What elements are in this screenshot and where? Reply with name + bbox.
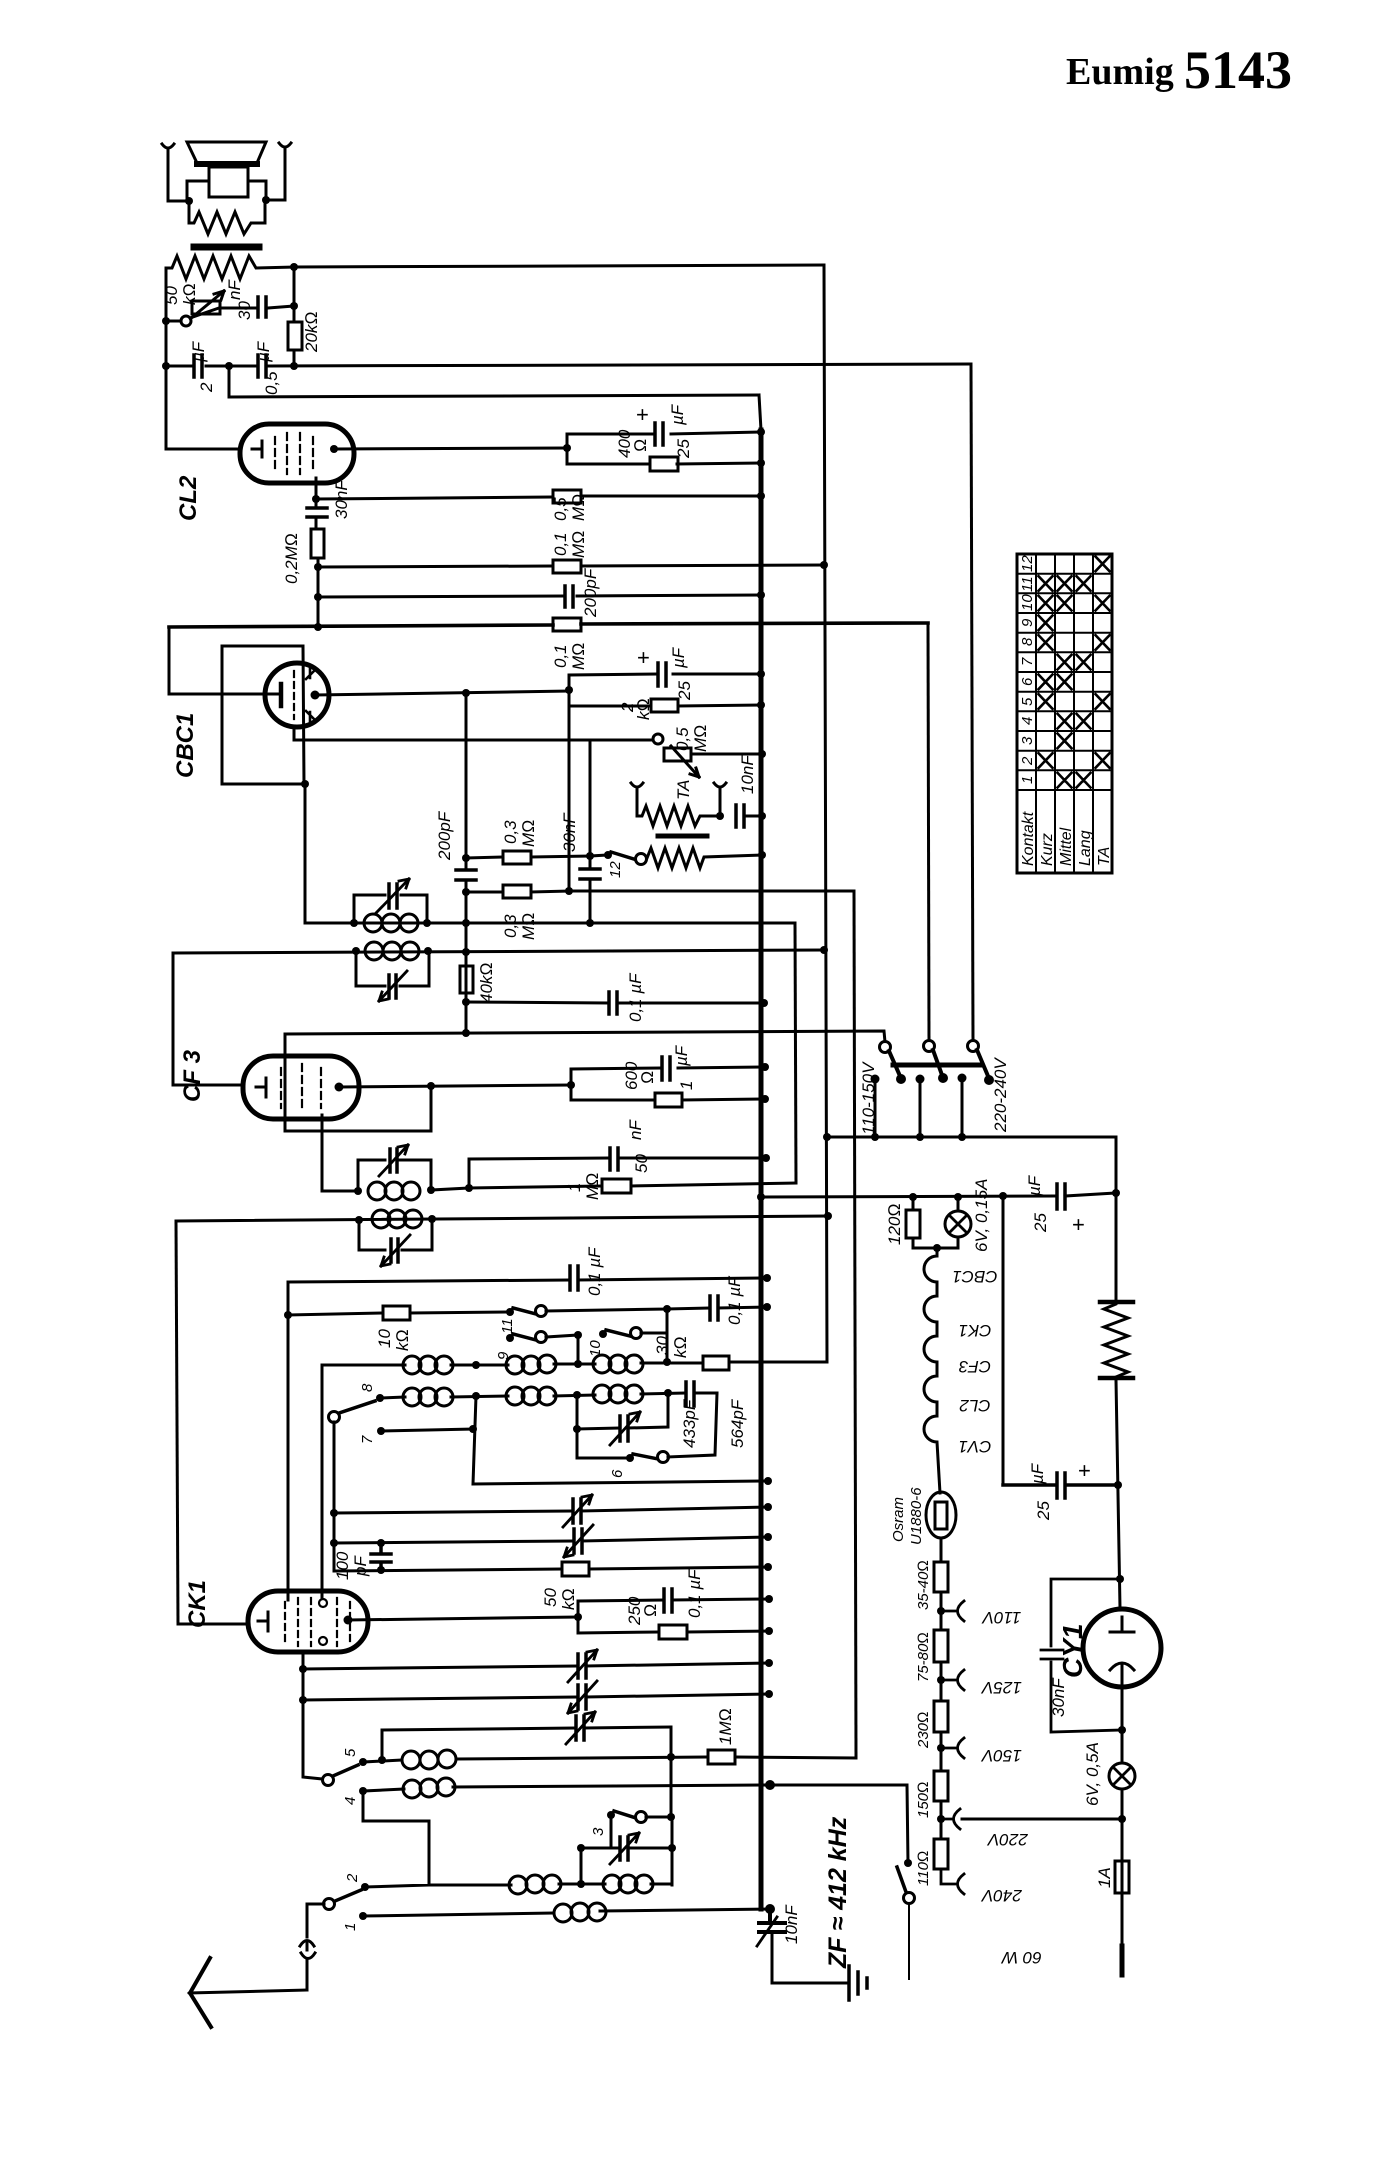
node speaker left — [185, 197, 193, 205]
svg-text:CL2: CL2 — [959, 1396, 991, 1415]
node bus 855 — [758, 851, 766, 859]
svg-text:ZF ≈ 412 kHz: ZF ≈ 412 kHz — [824, 1816, 852, 1969]
node 958-1197 — [954, 1193, 962, 1201]
node 578-1364 — [574, 1360, 582, 1368]
wire row 1697 — [303, 1694, 769, 1700]
node IF1 right — [423, 919, 431, 927]
label 25uF CBC1 — [669, 646, 694, 701]
label TA — [674, 780, 693, 800]
node 469-1188 — [465, 1184, 473, 1192]
svg-text:50: 50 — [632, 1154, 651, 1173]
wire row 1666 — [303, 1663, 769, 1669]
svg-text:11: 11 — [499, 1318, 516, 1334]
svg-text:MΩ: MΩ — [569, 643, 588, 670]
node cage bottom — [301, 780, 309, 788]
svg-text:5: 5 — [342, 1748, 359, 1757]
svg-text:1: 1 — [342, 1923, 359, 1931]
node 334-1543 — [330, 1539, 338, 1547]
svg-text:12: 12 — [1019, 555, 1036, 572]
svg-text:MΩ: MΩ — [519, 913, 538, 940]
node CL2 cathode — [312, 495, 320, 503]
label 220V — [986, 1830, 1028, 1849]
wire row 1728 — [382, 1727, 671, 1730]
node 382-1760 — [378, 1756, 386, 1764]
coil band 5 — [402, 1751, 420, 1769]
wire switch9 to coil row — [546, 1335, 578, 1364]
node tap 150V — [937, 1744, 945, 1752]
wire CL2 cathode pin — [315, 483, 318, 499]
wire CK1 cathode down — [303, 1652, 322, 1779]
svg-text:Ω: Ω — [631, 439, 650, 452]
svg-text:0,3: 0,3 — [501, 914, 520, 938]
node CBC1 anode — [311, 691, 320, 700]
label 400 Ohm — [615, 429, 650, 458]
resistor 40kOhm — [460, 966, 473, 993]
wire 0.2M to rows — [317, 558, 320, 627]
selector stub 1 — [874, 1079, 877, 1137]
node 668-1393 — [664, 1389, 672, 1397]
potentiometer 50k slider — [192, 301, 220, 314]
node bus 432 — [757, 428, 765, 436]
coil osc B2 — [506, 1387, 524, 1405]
resistor 600 Ohm — [655, 1093, 682, 1107]
selector lever 1 — [889, 1051, 900, 1076]
antenna arrow — [190, 1958, 211, 2027]
selector bar — [893, 1063, 981, 1068]
variable capacitor padder — [620, 1837, 628, 1860]
node IF4 right — [428, 1215, 436, 1223]
terminal 125V — [941, 1670, 964, 1690]
terminal selector 1 — [880, 1042, 891, 1053]
capacitor 0.1uF row1308 — [710, 1296, 718, 1320]
label 1M IF — [565, 1173, 602, 1200]
label 30nF CY1 — [1049, 1677, 1068, 1717]
node 1118-1485 — [1114, 1481, 1122, 1489]
wire left rail CK1 — [176, 1221, 178, 1624]
node 913-1197 — [909, 1193, 917, 1201]
label Osram — [890, 1487, 925, 1545]
selector lever 2 — [933, 1050, 942, 1075]
svg-text:Eumig: Eumig — [1066, 51, 1174, 93]
contact table labels — [1020, 811, 1113, 866]
wire row 923 — [305, 784, 795, 923]
wire vertical 928 — [928, 623, 929, 1040]
title Eumig 5143 — [1066, 40, 1292, 100]
wire row 1511 — [334, 1507, 768, 1513]
svg-text:CK1: CK1 — [184, 1580, 211, 1628]
wire vertical 672 low — [671, 1817, 674, 1885]
svg-text:12: 12 — [607, 861, 624, 878]
node 1003-1197 — [999, 1192, 1007, 1200]
node tap 220V — [937, 1815, 945, 1823]
svg-text:0,1: 0,1 — [551, 532, 570, 556]
resistor 0.1M row567 — [553, 560, 581, 573]
wire vertical 1003 — [1002, 1196, 1005, 1485]
svg-text:10: 10 — [375, 1329, 394, 1348]
label 10kOhm — [375, 1329, 412, 1351]
label 0.1uF row1308 — [725, 1275, 744, 1325]
svg-text:5: 5 — [1019, 697, 1036, 706]
wire 220V to CY1 line — [962, 1818, 1122, 1821]
coil IF3 — [368, 1182, 386, 1200]
wire 30nF to node — [268, 306, 294, 308]
wire dropper 3 — [940, 1732, 943, 1771]
capacitor 30nF CL2 grid — [307, 508, 327, 517]
wire CF3 rail — [173, 953, 243, 1085]
svg-text:30nF: 30nF — [560, 812, 579, 852]
label CBC1 heater — [952, 1267, 997, 1456]
tube CL2 internals — [252, 441, 262, 457]
label plus CL2 cap — [636, 402, 649, 427]
switch 7 — [377, 1427, 385, 1435]
svg-text:µF: µF — [668, 403, 687, 426]
node 600 block left — [567, 1081, 575, 1089]
wire row 1397 — [380, 1393, 717, 1398]
wire row 1787 — [363, 1785, 907, 1791]
wire switch6 stub — [577, 1429, 630, 1458]
node rail wiper — [162, 317, 170, 325]
node bus 1537 — [764, 1533, 772, 1541]
capacitor 0.1uF row1002 — [609, 992, 617, 1014]
resistor speaker hum-bucking — [189, 200, 265, 234]
variable capacitor gang A — [573, 1499, 581, 1523]
wire vertical 1116 — [1116, 1137, 1120, 1608]
svg-text:150V: 150V — [980, 1746, 1021, 1765]
capacitor 10nF IF out — [759, 1909, 785, 1932]
label 0.1uF CK1 — [685, 1568, 704, 1618]
variable capacitor IF4 — [391, 1239, 398, 1262]
node IF1 left — [350, 919, 358, 927]
label 2 uF — [189, 340, 216, 393]
wire row 951 — [173, 950, 824, 953]
label 250 Ohm — [625, 1596, 660, 1626]
wire chain to dropper — [940, 1538, 943, 1562]
resistor after switch 12 — [647, 848, 762, 868]
node tap 125V — [937, 1676, 945, 1684]
svg-text:TA: TA — [1096, 847, 1113, 866]
wire 50nF branch — [469, 1158, 766, 1188]
node bus 705 — [757, 701, 765, 709]
resistor 120 Ohm — [912, 1197, 915, 1248]
capacitor 25uF CL2 — [655, 423, 663, 445]
node bus 754 — [758, 750, 766, 758]
capacitor 0.1uF row1281 — [570, 1266, 578, 1290]
capacitor 0.5uF — [258, 355, 266, 377]
svg-text:220-240V: 220-240V — [991, 1057, 1010, 1133]
node 334-1513 — [330, 1509, 338, 1517]
label 0.5 M — [673, 725, 710, 752]
node 1122-1819 — [1118, 1815, 1126, 1823]
capacitor 200pF CBC1 — [456, 870, 476, 880]
label 0.1M 0.5M pair — [551, 494, 588, 558]
variable capacitor IF3 — [390, 1149, 397, 1172]
terminal 50k wiper — [181, 316, 191, 326]
resistor 230 — [934, 1701, 948, 1732]
label 0.1uF row1281 — [585, 1246, 604, 1296]
wire switch7 row — [381, 1429, 473, 1431]
svg-text:100: 100 — [333, 1551, 352, 1580]
svg-text:8: 8 — [1019, 637, 1036, 646]
label CF3 — [179, 1049, 206, 1102]
wire mains lead — [1121, 1898, 1124, 1944]
node 824-565 — [820, 561, 828, 569]
svg-text:1MΩ: 1MΩ — [716, 1708, 735, 1745]
svg-text:+: + — [1078, 1458, 1091, 1483]
svg-text:Ω: Ω — [638, 1071, 657, 1084]
wire mains switch feed — [907, 1785, 908, 1863]
terminal selector 3 — [968, 1041, 979, 1052]
node 381-1571 — [377, 1566, 385, 1574]
wire vertical 473 — [473, 1396, 768, 1484]
tube CK1 internals — [258, 1612, 268, 1631]
svg-text:150Ω: 150Ω — [915, 1781, 932, 1818]
wire CBC1 anode row — [315, 691, 569, 695]
node bus 1631 — [765, 1627, 773, 1635]
node rail row365 — [162, 362, 170, 370]
node 828-1216 — [824, 1212, 832, 1220]
tube CY1 — [1083, 1609, 1161, 1687]
label 40kOhm — [477, 963, 496, 1003]
coil band 4 — [403, 1780, 421, 1798]
wire speaker left lead — [168, 153, 189, 201]
label 564pF — [728, 1398, 747, 1448]
resistor 400 Ohm — [650, 457, 678, 471]
variable capacitor gang B — [574, 1529, 582, 1553]
selector lever pads — [896, 1074, 906, 1084]
wire dropper 2 — [940, 1662, 943, 1701]
capacitor 30nF CBC1 — [580, 869, 600, 879]
selector lever 3 — [977, 1050, 988, 1076]
TA coupling bar — [658, 834, 707, 839]
variable capacitor gang D — [578, 1685, 586, 1709]
switch 2 — [361, 1883, 369, 1891]
node 381-1543 — [377, 1539, 385, 1547]
label 75-80 — [915, 1632, 932, 1682]
svg-text:Ω: Ω — [641, 1604, 660, 1617]
wire row 891 to right — [569, 890, 854, 893]
svg-text:+: + — [637, 645, 650, 670]
node bus 1507 — [764, 1503, 772, 1511]
label 35-40 — [915, 1560, 932, 1610]
resistor 75-80 — [934, 1630, 948, 1662]
label CY1 — [1057, 1624, 1088, 1678]
wire 600 block frame — [571, 1067, 765, 1100]
svg-text:6V, 0,15A: 6V, 0,15A — [972, 1179, 991, 1252]
node 667-1309 — [663, 1305, 671, 1313]
svg-text:8: 8 — [359, 1383, 376, 1392]
svg-text:0,1 µF: 0,1 µF — [585, 1246, 604, 1296]
IF transformer 4 box — [359, 1219, 432, 1250]
wire row 1187 — [431, 1183, 796, 1190]
svg-text:µF: µF — [672, 1044, 691, 1067]
resistor power zigzag — [1104, 1300, 1128, 1380]
wire vertical 2k-left down — [568, 690, 571, 891]
wire vertical 382 — [381, 1730, 384, 1760]
label 10nF TA — [738, 754, 757, 794]
variable capacitor gang C — [578, 1654, 586, 1678]
svg-text:10: 10 — [1019, 594, 1036, 611]
node 466-858 — [462, 854, 470, 862]
terminal TA fork 1 — [631, 783, 643, 800]
label ZF 412 kHz — [824, 1816, 852, 1969]
node 577-1429 — [573, 1425, 581, 1433]
wire speaker right lead — [266, 152, 285, 200]
svg-text:9: 9 — [1019, 618, 1036, 627]
wire switch10 to 667 — [641, 1332, 667, 1335]
node row567 left — [314, 563, 322, 571]
node CF3 anode — [335, 1083, 344, 1092]
transformer core bar — [194, 244, 259, 251]
svg-text:3: 3 — [590, 1827, 607, 1836]
node bus 1694 — [765, 1690, 773, 1698]
svg-text:4: 4 — [342, 1797, 359, 1805]
variable capacitor gang E — [576, 1716, 584, 1740]
label 0.5 uF — [254, 340, 281, 395]
wire 433 loop — [577, 1393, 668, 1429]
switch 12 — [590, 855, 608, 856]
svg-text:200pF: 200pF — [435, 810, 454, 861]
svg-text:µF: µF — [1028, 1462, 1047, 1485]
wire 20k to row365 — [293, 350, 296, 366]
svg-text:CBC1: CBC1 — [952, 1267, 997, 1286]
label 30 nF — [225, 279, 254, 320]
label CBC1 — [172, 713, 199, 778]
svg-text:25: 25 — [1034, 1501, 1053, 1521]
node 920-1137 — [916, 1133, 924, 1141]
capacitor 30nF top — [258, 297, 266, 317]
node bus 1909 — [765, 1904, 775, 1914]
node 1116-1193 — [1112, 1189, 1120, 1197]
capacitor 25uF CBC1 — [658, 663, 666, 686]
svg-text:6: 6 — [609, 1469, 626, 1478]
svg-text:10nF: 10nF — [738, 754, 757, 794]
switch 6 — [626, 1454, 634, 1462]
wire 10nF to ground — [772, 1935, 847, 1983]
label 30nF CBC1 — [560, 812, 579, 852]
switch 8 — [329, 1412, 340, 1423]
fuse 1A — [1115, 1861, 1129, 1893]
switch 5 — [323, 1775, 334, 1786]
wire heater row 1197 — [761, 1193, 1116, 1197]
label 0.3M lower — [501, 913, 538, 940]
node 30nF switch12 — [586, 852, 594, 860]
wire row 1219 long — [176, 1216, 828, 1221]
switch 11 — [506, 1308, 514, 1316]
node 476-1366 — [472, 1361, 480, 1369]
wire top long row to x824 — [294, 265, 824, 267]
label 60W — [1000, 1948, 1042, 1967]
wire CK1 anode row — [348, 1617, 578, 1620]
node bus 816 — [758, 812, 766, 820]
svg-text:nF: nF — [225, 279, 244, 300]
label 50nF IF — [626, 1119, 651, 1173]
mains cord end — [1120, 1946, 1125, 1975]
node 2uF-0.5uF junction — [225, 362, 233, 370]
wire CF3 screen loop — [285, 1031, 885, 1131]
potentiometer 0.5M body — [664, 748, 691, 761]
node bus 1599 — [765, 1595, 773, 1603]
node row597 left — [314, 593, 322, 601]
potentiometer 50k arrow — [184, 291, 224, 324]
svg-text:pF: pF — [351, 1555, 370, 1577]
tube CBC1 — [265, 663, 329, 727]
IF transformer 3 box — [358, 1160, 431, 1191]
node 400 block left — [563, 444, 571, 452]
tube CF3 internals — [256, 1078, 266, 1097]
svg-text:30: 30 — [235, 301, 254, 320]
speaker voice coil box — [209, 167, 248, 197]
node CK1 anode — [344, 1616, 353, 1625]
node bus 1307 — [763, 1303, 771, 1311]
label 150 — [915, 1781, 932, 1818]
wire vertical 667 — [666, 1309, 669, 1362]
svg-text:µF: µF — [254, 340, 273, 363]
resistor 50kOhm osc — [562, 1562, 589, 1576]
antenna plug hooks — [300, 1941, 315, 1991]
switch 9 — [506, 1334, 514, 1342]
svg-text:1A: 1A — [1095, 1867, 1114, 1888]
node anode vert junction — [462, 689, 470, 697]
wire pot to bus — [691, 753, 762, 756]
capacitor 564pF — [686, 1382, 694, 1406]
svg-text:20kΩ: 20kΩ — [302, 312, 321, 353]
svg-text:CK1: CK1 — [958, 1321, 991, 1340]
wire wiper to rail — [166, 320, 181, 323]
ground — [849, 1966, 867, 2000]
node 577-1395 — [573, 1391, 581, 1399]
svg-text:30: 30 — [653, 1336, 672, 1355]
node 667-1362 — [663, 1358, 671, 1366]
svg-text:TA: TA — [674, 780, 693, 800]
node 875-1137 — [871, 1133, 879, 1141]
label 125V — [980, 1678, 1021, 1697]
node 1122-1730 — [1118, 1726, 1126, 1734]
node 962-1137 — [958, 1133, 966, 1141]
svg-text:Kurz: Kurz — [1039, 833, 1056, 866]
label CL2 — [175, 475, 202, 521]
switch 4 — [359, 1787, 367, 1795]
svg-text:Mittel: Mittel — [1058, 827, 1075, 866]
svg-text:3: 3 — [1019, 736, 1036, 745]
heater chain scallops — [924, 1248, 940, 1493]
svg-text:4: 4 — [1019, 717, 1036, 725]
resistor 35-40 — [934, 1562, 948, 1592]
contact table crosses — [1039, 557, 1110, 788]
node bus 1567 — [764, 1563, 772, 1571]
label 25uF heater — [1025, 1174, 1085, 1237]
node 20k bottom — [290, 362, 298, 370]
svg-text:MΩ: MΩ — [569, 494, 588, 521]
svg-text:25: 25 — [1031, 1213, 1050, 1233]
node top row right of pot — [290, 263, 298, 271]
label 10nF IF — [782, 1904, 801, 1944]
variable capacitor IF1 bottom — [389, 975, 396, 998]
wire row 1364 — [322, 1362, 827, 1365]
wire row 1002 — [466, 1002, 764, 1003]
terminal 240V — [941, 1869, 964, 1894]
wire row 1885 — [365, 1884, 672, 1887]
svg-text:50: 50 — [541, 1588, 560, 1607]
svg-text:U1880-6: U1880-6 — [908, 1487, 925, 1545]
wire row 1310 — [546, 1307, 767, 1311]
node bus 1278 — [763, 1274, 771, 1282]
ballast lamp Osram — [926, 1492, 956, 1538]
svg-text:0,3: 0,3 — [501, 820, 520, 844]
switch 3 — [607, 1811, 615, 1819]
label 25uF second — [1028, 1458, 1091, 1521]
wire row 597 — [318, 595, 761, 597]
node IF1b left — [352, 947, 360, 955]
